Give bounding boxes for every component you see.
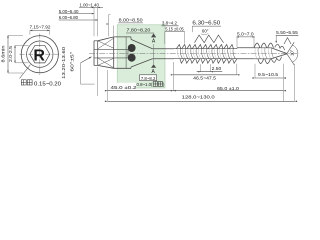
svg-text:2.0-2.5: 2.0-2.5 bbox=[8, 45, 13, 62]
svg-text:45.0 ±0.2: 45.0 ±0.2 bbox=[111, 85, 137, 91]
svg-text:7.80~8.20: 7.80~8.20 bbox=[127, 27, 151, 33]
svg-text:5.00~5.40: 5.00~5.40 bbox=[59, 9, 79, 14]
svg-text:5.0~7.0: 5.0~7.0 bbox=[237, 32, 254, 38]
svg-text:60°: 60° bbox=[202, 28, 209, 33]
svg-text:46.5~47.5: 46.5~47.5 bbox=[193, 76, 216, 82]
svg-text:128.0~130.0: 128.0~130.0 bbox=[182, 95, 215, 101]
svg-text:2.50: 2.50 bbox=[212, 66, 222, 71]
svg-text:3.8~4.2: 3.8~4.2 bbox=[162, 21, 178, 26]
svg-text:7.15~7.92: 7.15~7.92 bbox=[30, 24, 51, 30]
svg-text:65.0 ±1.0: 65.0 ±1.0 bbox=[217, 86, 239, 92]
svg-text:5.15 ±0.05: 5.15 ±0.05 bbox=[165, 26, 184, 31]
svg-text:7.8~8.2: 7.8~8.2 bbox=[141, 76, 156, 81]
svg-text:9.5~10.5: 9.5~10.5 bbox=[258, 72, 279, 78]
svg-text:0.8~1.0(: 0.8~1.0( bbox=[137, 82, 153, 87]
svg-text:10°: 10° bbox=[290, 49, 295, 56]
svg-text:0.15~0.20: 0.15~0.20 bbox=[34, 82, 61, 88]
svg-text:6.00~6.80: 6.00~6.80 bbox=[59, 15, 79, 20]
svg-text:R: R bbox=[33, 48, 45, 65]
svg-text:6.30~6.50: 6.30~6.50 bbox=[192, 21, 220, 27]
svg-text:8.6min: 8.6min bbox=[1, 45, 6, 63]
svg-text:13.20-13.60: 13.20-13.60 bbox=[61, 46, 66, 79]
svg-text:1.00~1.40: 1.00~1.40 bbox=[80, 2, 100, 7]
svg-text:60°±5°: 60°±5° bbox=[70, 51, 75, 71]
svg-text:5.50~5.55: 5.50~5.55 bbox=[276, 30, 298, 36]
